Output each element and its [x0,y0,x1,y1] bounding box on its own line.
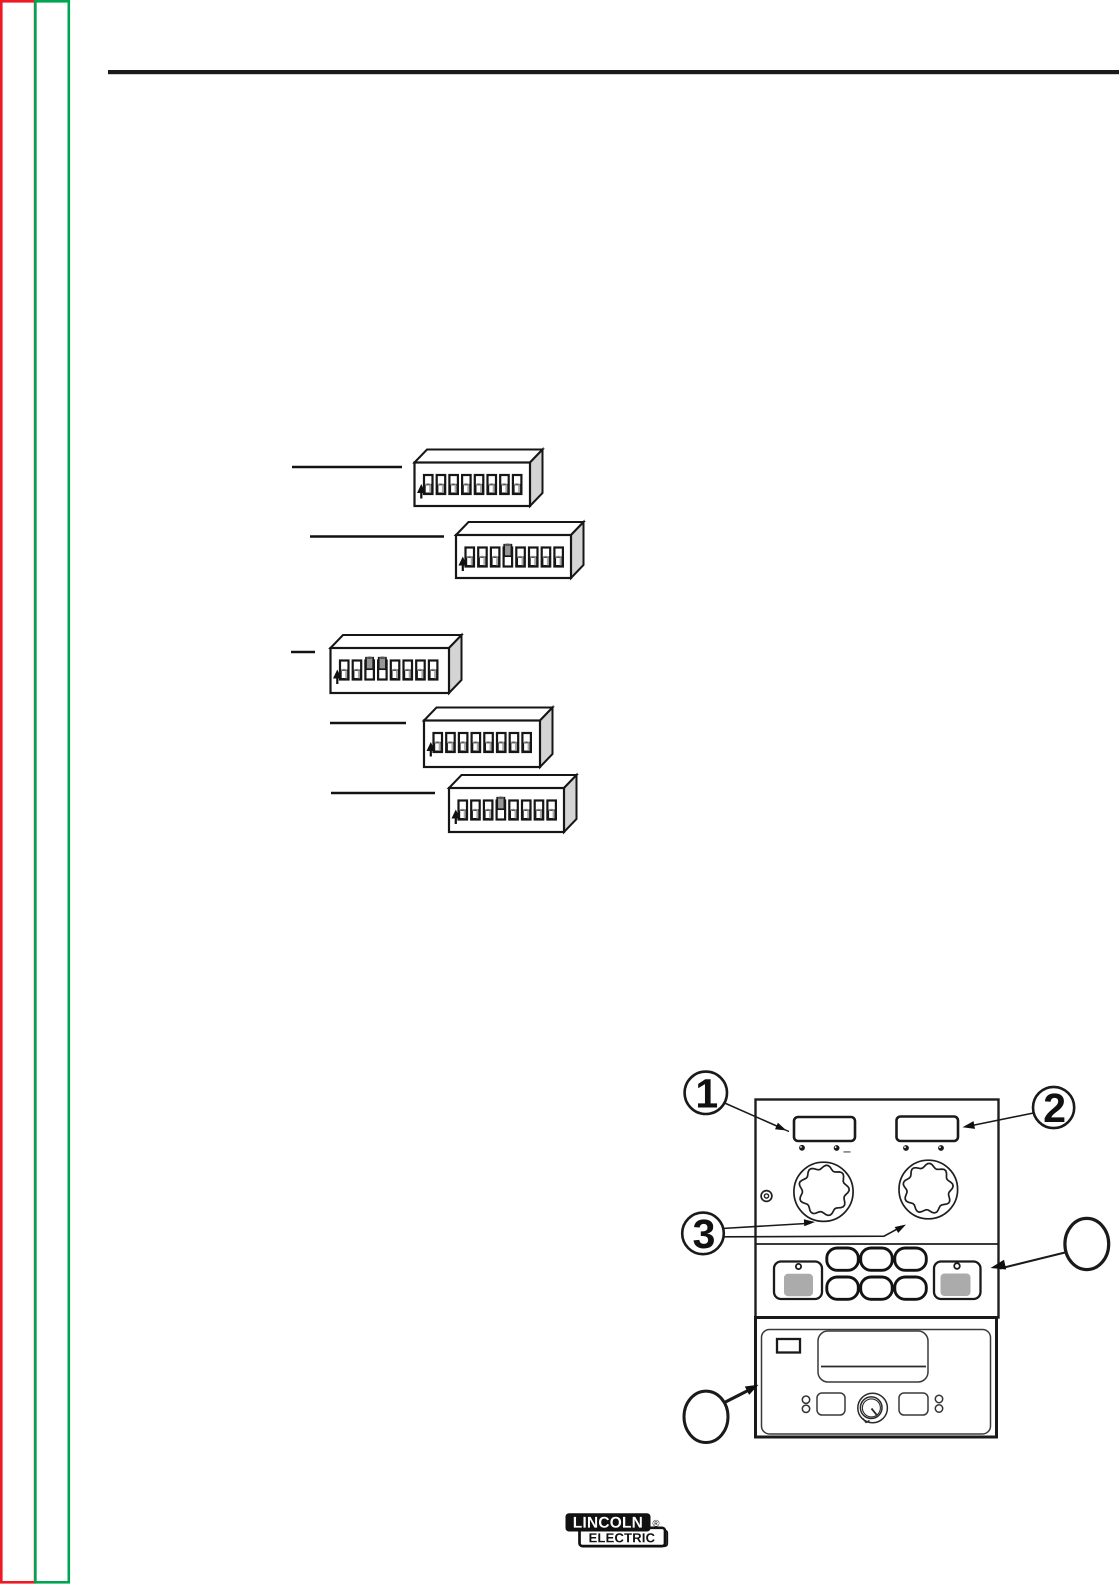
oval button row2 col3 [895,1277,927,1299]
DIP switch box SW3 (switches 3,4 up) [331,635,462,693]
wire feed display [818,1331,928,1382]
SW4 (all down): top face [424,708,553,721]
SW3 (switches 3,4 up): switch 5 (down) [391,661,400,680]
red registration rectangle [1,1,35,1582]
SW5 (switch 4 up): switch 3 (down) [484,801,493,820]
label line for SW4 (all down) [330,722,406,725]
callout circle 3 [682,1213,724,1255]
small panel screw [761,1191,772,1202]
SW5 (switch 4 up): up-direction arrow marker [452,810,461,825]
label line for SW1 (all down) [292,466,402,469]
SW3 (switches 3,4 up): switch 2 (down) [353,661,362,680]
SW2 (switch 4 up): top face [456,522,584,535]
SW3 (switches 3,4 up): front face [331,648,450,693]
SW2 (switch 4 up): switch 6 (down) [529,548,538,567]
right small button [899,1393,928,1415]
SW2 (switch 4 up): switch 3 (down) [491,548,500,567]
SW5 (switch 4 up): front face [449,788,564,832]
SW2 (switch 4 up): switch 8 (down) [554,548,563,567]
SW1 (all down): switch 2 (down) [437,475,446,494]
SW3 (switches 3,4 up): switch 3 (up) [365,657,374,679]
SW1 (all down): front face [415,463,531,507]
oval button row2 col2 [861,1277,893,1299]
SW1 (all down): right side face [530,450,543,507]
label line for SW5 (switch 4 up) [331,792,435,795]
panel section divider [756,1243,999,1245]
DIP switch box SW5 (switch 4 up) [449,775,577,832]
SW1 (all down): switch 7 (down) [500,475,509,494]
right knob [899,1160,958,1219]
SW1 (all down): up-direction arrow marker [417,484,426,499]
SW1 (all down): switch 5 (down) [475,475,484,494]
SW5 (switch 4 up): switch 4 (up) [497,797,506,819]
control panel upper body outline [756,1100,999,1318]
green registration rectangle [35,1,68,1582]
SW1 (all down): switch 8 (down) [513,475,522,494]
bottom panel inner rounded outline [762,1330,991,1435]
SW5 (switch 4 up): switch 7 (down) [535,801,544,820]
SW5 (switch 4 up): switch 5 (down) [509,801,518,820]
SW4 (all down): switch 4 (down) [472,733,481,752]
right unlabeled callout circle [1065,1218,1109,1269]
SW1 (all down): switch 1 (down) [424,475,433,494]
center potentiometer knob [858,1393,888,1423]
SW3 (switches 3,4 up): switch 7 (down) [416,661,425,680]
SW2 (switch 4 up): switch 7 (down) [542,548,551,567]
small nameplate rectangle [777,1339,800,1353]
SW2 (switch 4 up): switch 1 (down) [466,548,475,567]
indicator LEDs under right display [903,1145,944,1151]
Lincoln Electric logo [566,1513,668,1546]
SW5 (switch 4 up): right side face [564,775,577,832]
SW5 (switch 4 up): top face [449,775,577,788]
SW4 (all down): switch 6 (down) [497,733,506,752]
SW4 (all down): switch 7 (down) [510,733,519,752]
left small button [817,1393,845,1415]
SW3 (switches 3,4 up): switch 8 (down) [429,661,438,680]
SW2 (switch 4 up): up-direction arrow marker [459,557,468,572]
callout 2 arrow [963,1113,1034,1129]
left display window [794,1117,855,1141]
SW4 (all down): switch 5 (down) [484,733,493,752]
DIP switch box SW1 (all down) [415,450,543,507]
SW4 (all down): switch 8 (down) [522,733,531,752]
callout circle 2 [1033,1087,1074,1128]
SW1 (all down): switch 4 (down) [462,475,471,494]
callout 1 arrow [724,1103,790,1132]
DIP switch box SW4 (all down) [424,708,553,768]
SW4 (all down): up-direction arrow marker [427,742,436,757]
oval button row1 col1 [827,1248,859,1270]
DIP switch box SW2 (switch 4 up) [456,522,584,578]
top horizontal rule [108,70,1119,74]
SW4 (all down): right side face [540,708,553,768]
left square button [774,1262,822,1300]
SW3 (switches 3,4 up): switch 4 (up) [378,657,387,679]
SW2 (switch 4 up): right side face [571,522,584,578]
right pair of small circles [935,1395,942,1412]
SW3 (switches 3,4 up): switch 6 (down) [404,661,413,680]
SW4 (all down): switch 1 (down) [434,733,443,752]
SW3 (switches 3,4 up): right side face [449,635,462,693]
label line for SW3 (switches 3,4 up) [291,651,315,654]
callout 3 arrow to left knob [722,1219,815,1228]
SW5 (switch 4 up): switch 2 (down) [471,801,480,820]
SW2 (switch 4 up): switch 5 (down) [516,548,525,567]
left knob [794,1162,853,1221]
SW3 (switches 3,4 up): up-direction arrow marker [333,670,342,685]
SW5 (switch 4 up): switch 8 (down) [547,801,556,820]
bottom panel thick outline [756,1318,997,1438]
SW2 (switch 4 up): front face [456,535,571,578]
right display window [897,1117,959,1142]
bottom-left unlabeled callout circle [684,1391,728,1442]
label line for SW2 (switch 4 up) [310,535,444,538]
SW2 (switch 4 up): switch 4 (up) [504,544,512,566]
SW1 (all down): switch 3 (down) [449,475,458,494]
oval button row1 col3 [895,1248,927,1270]
SW3 (switches 3,4 up): top face [331,635,462,648]
SW2 (switch 4 up): switch 2 (down) [478,548,487,567]
SW4 (all down): switch 3 (down) [459,733,468,752]
oval button row2 col1 [827,1277,859,1299]
callout circle 1 [685,1072,727,1114]
SW3 (switches 3,4 up): switch 1 (down) [340,661,349,680]
right square button [934,1262,981,1300]
SW5 (switch 4 up): switch 6 (down) [522,801,531,820]
indicator LEDs under left display [799,1145,850,1153]
SW5 (switch 4 up): switch 1 (down) [459,801,468,820]
callout 3 arrow to right knob [721,1225,906,1237]
right callout arrow to right square button [991,1253,1066,1270]
bottom-left callout arrow to bottom panel [724,1385,759,1403]
left pair of small circles [802,1396,809,1413]
oval button row1 col2 [861,1248,893,1270]
SW1 (all down): top face [415,450,543,463]
SW1 (all down): switch 6 (down) [488,475,497,494]
SW4 (all down): front face [424,721,540,768]
SW4 (all down): switch 2 (down) [446,733,455,752]
